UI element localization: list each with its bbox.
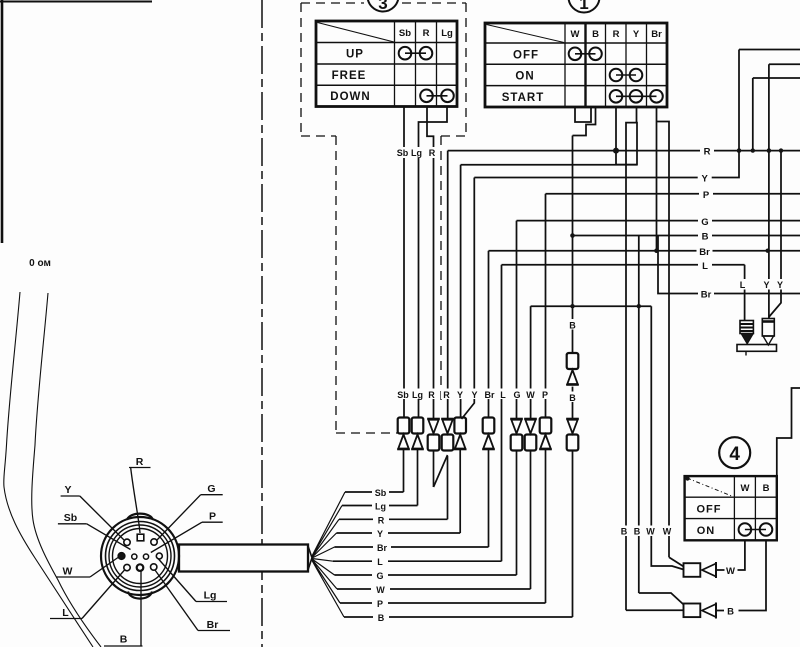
svg-text:Lg: Lg: [441, 28, 453, 39]
svg-text:B: B: [569, 321, 576, 331]
svg-text:B: B: [120, 634, 128, 646]
svg-text:B: B: [378, 613, 385, 623]
svg-text:Lg: Lg: [204, 590, 217, 602]
svg-text:ON: ON: [697, 525, 716, 537]
svg-text:W: W: [526, 390, 535, 400]
svg-text:Sb: Sb: [64, 512, 77, 524]
svg-text:START: START: [502, 92, 544, 104]
svg-text:G: G: [513, 390, 520, 400]
svg-text:Lg: Lg: [411, 148, 422, 158]
svg-text:R: R: [704, 147, 711, 158]
svg-text:Br: Br: [699, 247, 710, 258]
svg-text:Sb: Sb: [397, 148, 409, 158]
svg-text:Lg: Lg: [412, 390, 423, 400]
svg-text:Br: Br: [484, 390, 494, 400]
svg-text:R: R: [428, 390, 435, 400]
svg-text:R: R: [136, 456, 144, 468]
svg-text:Y: Y: [777, 280, 783, 290]
svg-text:Y: Y: [457, 390, 463, 400]
svg-text:G: G: [376, 571, 383, 581]
svg-text:Br: Br: [207, 619, 219, 631]
svg-text:P: P: [377, 599, 383, 609]
svg-text:L: L: [500, 390, 506, 400]
svg-text:Br: Br: [651, 29, 662, 40]
svg-text:L: L: [740, 280, 746, 290]
svg-text:W: W: [741, 483, 750, 494]
svg-text:B: B: [621, 527, 628, 537]
svg-text:R: R: [378, 515, 385, 525]
svg-text:P: P: [542, 390, 548, 400]
svg-text:W: W: [63, 566, 73, 578]
svg-text:ON: ON: [515, 71, 534, 83]
svg-text:Y: Y: [471, 390, 477, 400]
svg-text:W: W: [571, 29, 580, 40]
svg-text:Sb: Sb: [397, 390, 409, 400]
svg-text:R: R: [443, 390, 450, 400]
svg-text:L: L: [62, 607, 69, 619]
svg-text:B: B: [569, 393, 576, 403]
svg-text:Y: Y: [702, 174, 709, 185]
svg-text:G: G: [207, 483, 215, 495]
svg-text:Br: Br: [377, 543, 387, 553]
svg-text:W: W: [646, 527, 655, 537]
svg-text:4: 4: [729, 444, 740, 465]
svg-text:OFF: OFF: [513, 49, 539, 61]
svg-text:P: P: [209, 511, 216, 523]
svg-text:W: W: [726, 566, 735, 577]
svg-text:0 ом: 0 ом: [29, 258, 51, 269]
svg-text:R: R: [429, 148, 436, 158]
svg-text:R: R: [613, 29, 620, 40]
svg-text:Y: Y: [64, 484, 71, 496]
svg-text:UP: UP: [346, 49, 364, 61]
svg-text:Br: Br: [701, 290, 712, 301]
svg-text:G: G: [701, 217, 708, 228]
svg-text:Y: Y: [633, 29, 640, 40]
svg-text:Sb: Sb: [375, 488, 387, 498]
svg-text:Sb: Sb: [399, 28, 411, 39]
svg-text:OFF: OFF: [697, 504, 722, 516]
svg-text:Y: Y: [763, 280, 769, 290]
svg-text:B: B: [592, 29, 599, 40]
svg-text:Y: Y: [377, 529, 383, 539]
svg-text:B: B: [634, 527, 641, 537]
svg-text:W: W: [376, 585, 385, 595]
svg-text:B: B: [702, 232, 709, 243]
svg-text:B: B: [763, 483, 770, 494]
svg-text:DOWN: DOWN: [330, 91, 370, 103]
svg-text:FREE: FREE: [332, 70, 367, 82]
svg-text:3: 3: [378, 0, 387, 13]
svg-text:W: W: [663, 527, 672, 537]
svg-text:R: R: [423, 28, 430, 39]
svg-text:Lg: Lg: [375, 502, 386, 512]
svg-text:1: 1: [579, 0, 588, 13]
svg-text:L: L: [702, 261, 708, 272]
svg-text:B: B: [727, 607, 734, 618]
svg-text:P: P: [703, 190, 710, 201]
svg-text:L: L: [377, 557, 383, 567]
